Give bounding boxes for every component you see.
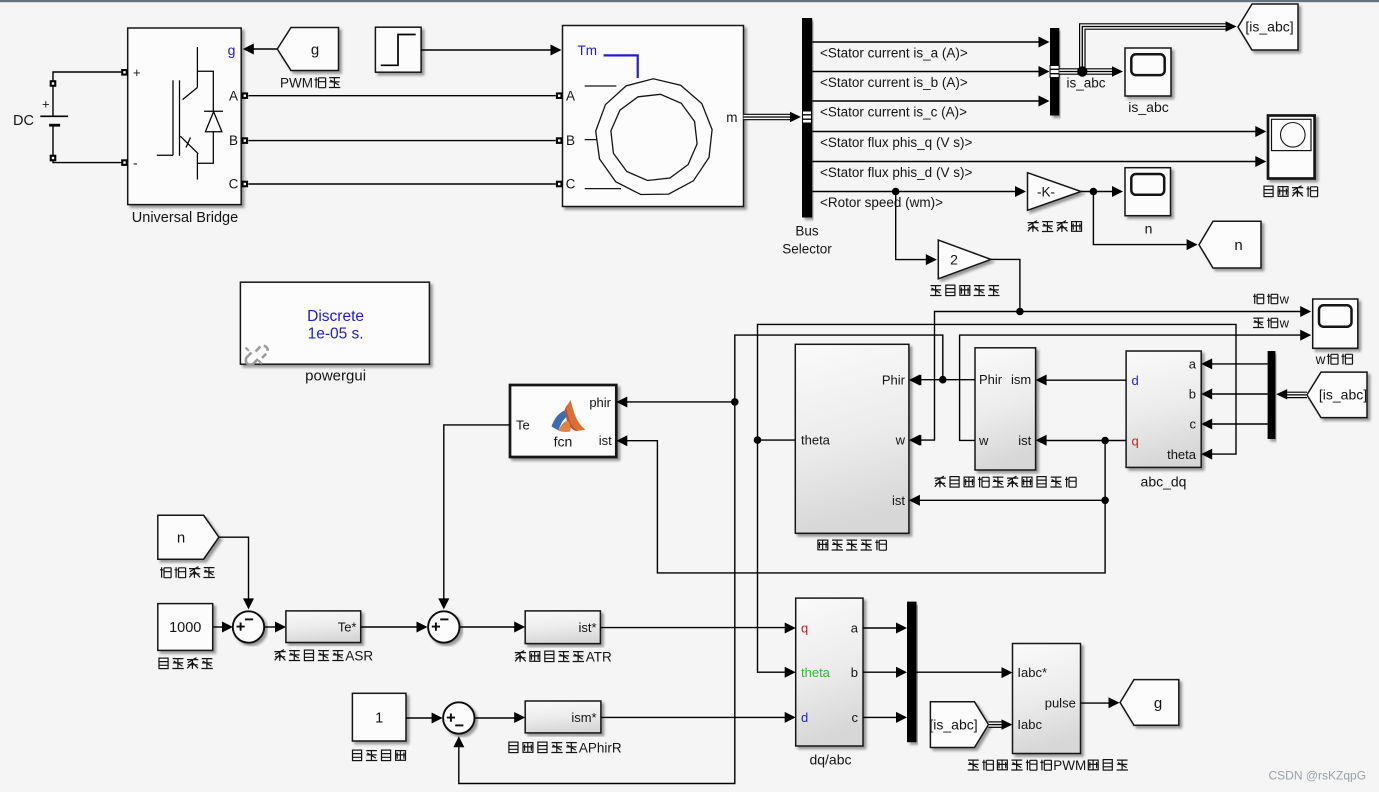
svg-text:a: a [851,621,859,636]
wire equivalent-block w output to w-compare scope [960,330,1312,441]
wire fcn Te output to sum2 [438,425,510,610]
svg-text:ist: ist [892,493,905,508]
svg-text:b: b [851,665,858,680]
wire bridge C to motor C [248,183,555,185]
Demux block (is_abc to a b c) [1268,351,1276,439]
wire ist from abc_dq q output to equivalent block, angle-calc and fcn [626,437,1126,573]
Gain -K- (speed conversion) [1028,173,1082,211]
label equivalent DC motor parameter calculation [935,476,1077,487]
label given flux [353,750,406,761]
Mux block (current reference) [907,602,917,743]
svg-text:ism: ism [1011,372,1031,387]
label speed regulator ASR [274,649,373,664]
label PWM signal [280,76,340,91]
label DC [13,113,34,129]
bus wire mux to is_abc scope and Goto tag [1059,21,1236,76]
svg-text:abc_dq: abc_dq [1141,474,1187,490]
svg-text:DC: DC [13,113,34,129]
svg-text:Te: Te [516,417,530,432]
svg-text:is_abc: is_abc [1128,99,1168,115]
svg-text:ATR: ATR [586,650,612,665]
svg-text:c: c [852,710,859,725]
svg-text:C: C [229,177,239,192]
Sum junction 3 (flux error) [443,702,474,733]
svg-text:Universal Bridge: Universal Bridge [132,210,238,226]
hysteresis PWM generator block [1013,644,1081,754]
Step source block [375,27,421,72]
Sum junction 1 (speed error) [233,611,264,642]
svg-text:w: w [978,433,989,448]
svg-text:[is_abc]: [is_abc] [1245,19,1293,35]
label abc_dq [1141,474,1187,490]
From tag g (PWM signal) [277,28,338,71]
label flux regulator APhirR [509,741,622,756]
svg-text:q: q [1132,434,1139,449]
wire bus selector out 1 (stator current) [812,37,1049,48]
svg-text:<Stator current is_a (A)>: <Stator current is_a (A)> [820,45,968,60]
svg-text:C: C [566,177,576,192]
Mux block (is_abc) [1050,28,1059,116]
label current hysteresis tracking PWM generator [968,758,1128,773]
Sum junction 2 (torque error) [428,611,459,642]
Gain 2 (electrical angular speed) [938,240,991,279]
svg-text:-K-: -K- [1037,184,1055,199]
svg-text:is_abc: is_abc [1067,76,1106,91]
wire bus selector out 3 (stator current) [812,96,1049,107]
wire 1000 to sum1 [213,622,233,633]
svg-text:phir: phir [589,395,611,410]
svg-text:1e-05 s.: 1e-05 s. [308,325,364,342]
svg-text:n: n [1234,237,1242,254]
svg-text:<Stator current is_b (A)>: <Stator current is_b (A)> [820,75,968,90]
wire 1 to sum3 [406,713,443,724]
label w compare [1315,352,1353,367]
svg-text:2: 2 [950,251,958,267]
svg-text:Tm: Tm [578,43,598,58]
svg-text:m: m [726,110,737,125]
svg-text:w: w [1279,316,1290,331]
svg-text:w: w [895,433,906,448]
svg-text:A: A [229,88,238,103]
svg-text:<Rotor speed (wm)>: <Rotor speed (wm)> [820,195,943,210]
svg-text:n: n [1145,221,1153,237]
svg-text:theta: theta [801,433,831,448]
svg-text:CSDN @rsKZqpG: CSDN @rsKZqpG [1269,769,1367,783]
svg-text:APhirR: APhirR [579,741,622,756]
svg-text:ist: ist [1018,433,1031,448]
wire sum3 to APhirR [475,712,525,723]
svg-text:dq/abc: dq/abc [809,752,851,768]
XY Graph scope (flux observation) [1268,116,1315,179]
svg-text:[is_abc]: [is_abc] [1319,386,1367,402]
label dq/abc [809,752,851,768]
Scope is_abc [1125,48,1171,96]
Bus Selector block [802,18,812,218]
svg-text:d: d [801,710,808,725]
svg-text:PWM: PWM [280,76,313,91]
signal label <Stator flux phis_q (V s)> [820,135,972,150]
wire stator flux phis_q to scope [812,126,1266,137]
svg-text:Discrete: Discrete [307,308,364,325]
svg-text:w: w [1315,352,1326,367]
label angle calculation [818,540,887,551]
Asynchronous machine motor block [556,26,744,207]
label flux observation [1264,186,1318,197]
svg-text:q: q [801,621,808,636]
From tag n (actual speed) [158,515,219,559]
svg-text:+: + [42,97,50,112]
svg-text:A: A [566,88,575,103]
watermark CSDN [1269,769,1367,783]
wire sum1 to ASR [265,622,286,633]
wire bridge A to motor A [248,95,555,97]
svg-text:Te*: Te* [338,620,357,635]
svg-text:b: b [1189,387,1196,402]
svg-text:-: - [133,155,138,171]
From tag [is_abc] bottom [929,702,988,748]
svg-text:<Stator flux phis_q (V s)>: <Stator flux phis_q (V s)> [820,135,972,150]
wire ATR to dq/abc q input [600,623,795,634]
Scope w compare [1313,299,1358,348]
wire step to motor Tm [421,45,561,56]
signal label computed w [1253,316,1290,331]
wire From-g to bridge gate [243,44,277,55]
svg-text:PWM: PWM [1053,758,1086,773]
wire theta from angle-calc to abc_dq and dq/abc [754,324,1236,677]
wire rotor speed to gain -K- with branch to gain 2 [812,186,1026,265]
label speed conversion [1028,221,1082,232]
speed regulator ASR block [286,611,361,643]
subsystem block dq/abc [796,598,863,746]
torque regulator ATR block [525,611,600,644]
signal label <Stator current is_b (A)> [820,75,968,90]
svg-text:fcn: fcn [554,434,573,450]
Constant block 1000 (speed reference) [158,604,213,651]
wire pulse to Goto g [1081,697,1120,708]
wire APhirR to dq/abc d input [601,712,796,723]
wire From n to sum1 [219,537,254,609]
svg-text:theta: theta [801,665,831,680]
Scope n [1125,168,1171,216]
signal label is_abc [1067,76,1106,91]
label given speed [159,658,213,669]
svg-text:theta: theta [1167,447,1197,462]
label electrical angular speed [930,285,999,296]
flux regulator APhirR block [525,701,601,733]
wires dq/abc outputs to mux [863,623,907,723]
wire ASR to sum2 [361,622,428,633]
svg-text:ist: ist [599,433,612,448]
wire sum2 to ATR [460,622,525,633]
signal label actual w [1253,292,1290,307]
svg-text:Phir: Phir [882,373,906,388]
svg-text:g: g [1154,695,1162,712]
svg-text:B: B [566,133,575,148]
svg-text:<Stator flux phis_d (V s)>: <Stator flux phis_d (V s)> [820,165,972,180]
svg-text:pulse: pulse [1045,696,1076,711]
powergui block [240,282,429,365]
wire bus selector out 2 (stator current) [812,66,1049,77]
wire mux to PWM generator Iabc* [917,667,1013,678]
Goto tag [is_abc] top [1238,4,1298,50]
signal label <Rotor speed (wm)> [820,195,943,210]
svg-text:[is_abc]: [is_abc] [929,716,977,732]
wire gain -K- to scope n and Goto n [1081,186,1198,250]
signal label <Stator current is_c (A)> [820,104,967,119]
subsystem block abc_dq [1126,351,1212,467]
Goto tag g [1120,680,1179,726]
label is_abc [1128,99,1168,115]
Constant block 1 (flux reference) [352,693,406,741]
label n [1145,221,1153,237]
signal label <Stator current is_a (A)> [820,45,968,60]
Goto tag n [1199,221,1261,268]
svg-text:a: a [1189,357,1197,372]
svg-text:Selector: Selector [782,242,832,257]
svg-text:g: g [228,42,236,58]
svg-text:g: g [311,42,319,59]
bus wire From is_abc to demux [1276,389,1307,399]
svg-text:1: 1 [375,710,383,726]
svg-text:powergui: powergui [305,368,366,385]
svg-text:n: n [177,529,185,546]
label actual speed [160,567,215,578]
label Universal Bridge [132,210,238,226]
DC voltage source battery [40,72,121,163]
wire gain2 to w-compare scope and angle-calc w input [910,259,1311,445]
Universal Bridge block [121,28,248,205]
wire stator flux phis_d to scope [812,156,1266,167]
label torque regulator ATR [515,650,612,665]
svg-text:ism*: ism* [571,710,596,725]
svg-text:1000: 1000 [169,620,201,636]
svg-text:ASR: ASR [345,649,373,664]
bus wire From is_abc to PWM generator Iabc [989,719,1013,729]
MATLAB Function block fcn [510,385,627,457]
svg-text:w: w [1279,292,1290,307]
svg-text:+: + [133,65,141,80]
svg-text:Iabc: Iabc [1017,717,1042,732]
From tag [is_abc] right [1307,372,1367,418]
svg-text:d: d [1132,373,1139,388]
wire bridge B to motor B [248,140,555,142]
label powergui [305,368,366,385]
signal label <Stator flux phis_d (V s)> [820,165,972,180]
wire Phir from equivalent block to angle-calc, fcn and flux feedback [453,335,975,783]
subsystem block angle calculation [795,344,920,533]
svg-text:<Stator current is_c (A)>: <Stator current is_c (A)> [820,104,967,119]
svg-text:c: c [1190,417,1197,432]
svg-text:Phir: Phir [979,372,1003,387]
svg-text:ist*: ist* [579,620,597,635]
label Bus Selector [782,224,832,257]
subsystem block equivalent DC motor parameter calculation [975,348,1047,470]
bus wire motor m to Bus Selector [744,112,802,122]
wire ism from abc_dq d output to equivalent block [1046,379,1126,381]
svg-text:B: B [229,133,238,148]
svg-text:Bus: Bus [795,224,819,239]
svg-text:Iabc*: Iabc* [1017,665,1047,680]
top window edge [0,0,1379,2]
wires demux to abc_dq inputs a b c [1211,364,1268,424]
